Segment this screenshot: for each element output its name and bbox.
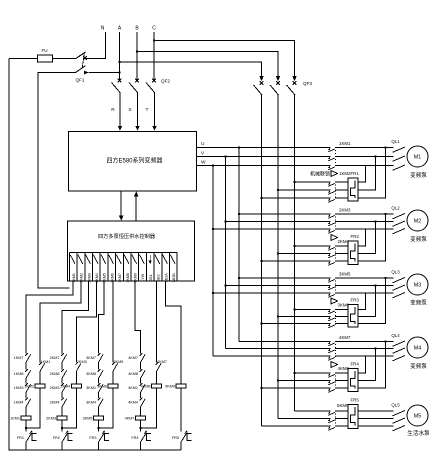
branch group2 right wire (62, 350, 76, 428)
branch group5 wire bottom (180, 388, 182, 432)
motor M5 (407, 405, 428, 426)
terminal divider 3 (84, 253, 86, 282)
motor M3 (407, 274, 428, 295)
svg-text:5KM9: 5KM9 (134, 273, 138, 282)
svg-text:变频泵: 变频泵 (410, 299, 427, 307)
motor lead M2 2 (393, 221, 406, 226)
contactor 1KM2 pole 2 on mains line (278, 189, 348, 191)
svg-text:2KM4: 2KM4 (50, 401, 60, 405)
thermal contact FR4 (141, 431, 147, 442)
svg-text:1KM3: 1KM3 (14, 386, 24, 390)
breaker QF1 pole 2 blade (76, 66, 86, 73)
contact 2KM3 aux (76, 362, 81, 371)
contactor 1KM1 pole 2 on phase line (196, 156, 393, 158)
terminal divider 7 (115, 253, 117, 282)
motor M1 (407, 146, 428, 167)
junction riser M4 3 (384, 340, 387, 343)
coil 4KM7 (136, 416, 146, 420)
branch group4 right wire (141, 350, 157, 428)
wire terminal 5 to branch (99, 281, 105, 350)
motor lead M5 3 (393, 426, 406, 431)
svg-text:M4: M4 (414, 346, 422, 352)
junction riser M1 2 (374, 155, 377, 158)
contact 4KM7 aux (156, 362, 161, 371)
contact 3KM8 (98, 369, 103, 378)
terminal switch 14 (170, 255, 175, 264)
controller box (68, 221, 195, 281)
junction group1 (25, 427, 28, 430)
wire C dropper (153, 32, 155, 80)
svg-text:N: N (101, 26, 105, 32)
svg-text:2KM4: 2KM4 (95, 273, 99, 282)
terminal divider 1 (68, 253, 70, 282)
breaker QF3 pole 1 arrow (259, 76, 264, 81)
motor lead M3 2 (393, 285, 406, 290)
breaker QF1 pole 2 terminal arrow (84, 71, 89, 75)
motor lead M2 3 (393, 229, 406, 234)
motor lead M4 3 (393, 356, 406, 361)
branch group3 left wire (98, 350, 100, 450)
terminal divider 11 (145, 253, 147, 282)
wire B to QF3 (137, 52, 278, 77)
coil 3KM6 (108, 384, 118, 388)
svg-text:QF2: QF2 (161, 79, 170, 84)
contact 4KM4 (140, 398, 145, 407)
contact 1KM8 (25, 369, 30, 378)
svg-text:4KM8: 4KM8 (141, 384, 151, 388)
svg-text:4KM7: 4KM7 (125, 416, 135, 420)
svg-text:3KM6: 3KM6 (97, 384, 107, 388)
contactor 2KM4 linkage (335, 249, 337, 263)
svg-text:R: R (111, 107, 115, 113)
contactor 1KM1 pole 1 on phase line (196, 147, 393, 149)
contactor 3KM5 pole 2 on phase line (226, 285, 394, 287)
breaker QF2 pole 1 blade (112, 83, 121, 93)
interlock triangle M2 (331, 235, 338, 241)
interlock triangle M1 (331, 171, 338, 177)
svg-text:变频泵: 变频泵 (410, 362, 427, 370)
breaker QF3 pole 2 arrow (276, 76, 281, 81)
thermal relay FR2 (348, 241, 358, 265)
svg-text:SB3A: SB3A (164, 273, 168, 283)
junction riser M2 3 (384, 213, 387, 216)
svg-text:FU: FU (41, 48, 47, 53)
svg-text:1KM1: 1KM1 (339, 141, 351, 146)
coil 4KM8 (152, 384, 162, 388)
svg-text:1KM8: 1KM8 (14, 372, 24, 376)
wire terminal 1 to branch (26, 281, 73, 350)
svg-text:FR5: FR5 (351, 398, 360, 403)
terminal divider 5 (99, 253, 101, 282)
wire FR2 output 1 riser (358, 229, 366, 246)
junction group2 (61, 427, 64, 430)
terminal switch 13 (163, 255, 168, 264)
contactor 2KM4 pole 3 on mains line (262, 260, 349, 262)
junction M2 lower phase 2 tap (277, 252, 280, 255)
svg-text:FR3: FR3 (351, 298, 360, 303)
svg-text:QL5: QL5 (391, 403, 400, 408)
svg-text:M3: M3 (414, 283, 422, 289)
terminal divider 4 (91, 253, 93, 282)
thermal contact FR3 (99, 431, 105, 442)
contact 2KM3 (61, 383, 66, 392)
contactor 4KM7 pole 1 on phase line (239, 341, 394, 343)
svg-text:U: U (201, 141, 205, 147)
svg-text:生活水泵: 生活水泵 (407, 429, 429, 437)
breaker QF3 pole 1 terminal (260, 81, 264, 85)
svg-text:1KM4: 1KM4 (14, 401, 24, 405)
svg-text:4KM8: 4KM8 (128, 372, 138, 376)
junction M3 upper phase 1 tap (238, 277, 241, 280)
svg-text:FR5: FR5 (172, 436, 179, 440)
svg-text:2KM3: 2KM3 (50, 386, 60, 390)
svg-text:2KM3: 2KM3 (87, 273, 91, 282)
terminal strip top line (69, 252, 177, 254)
svg-text:QL4: QL4 (391, 333, 400, 338)
junction A-QF1 (118, 71, 121, 74)
motor M4 (407, 337, 428, 358)
contactor 4KM8 pole 1 on mains line (295, 372, 349, 374)
wire FR1 output 1 riser (358, 166, 366, 183)
wire fuse to QF1 (53, 58, 76, 60)
junction M3 upper phase 3 tap (212, 292, 215, 295)
svg-text:W: W (201, 160, 206, 166)
svg-text:FR2: FR2 (351, 234, 360, 239)
junction B branch (136, 50, 139, 53)
svg-text:S: S (128, 107, 131, 113)
svg-text:QF3: QF3 (303, 81, 312, 86)
thermal relay FR4 (348, 369, 358, 392)
arrow into controller (119, 216, 124, 221)
svg-text:3KM5: 3KM5 (114, 360, 124, 364)
svg-text:3KM5: 3KM5 (103, 273, 107, 282)
thermal relay FR5 (348, 405, 358, 429)
svg-text:2KM3: 2KM3 (339, 208, 351, 213)
breaker QF1 linkage (82, 54, 84, 68)
wire B dropper (136, 32, 138, 80)
svg-text:2KM4: 2KM4 (60, 384, 70, 388)
wire terminal 6 to branch (112, 281, 114, 350)
junction riser M3 3 (384, 277, 387, 280)
breaker QF2 pole 2 blade (129, 83, 138, 93)
motor lead M5 2 (393, 418, 406, 423)
motor lead M1 3 (393, 165, 406, 170)
junction M1 lower phase 2 tap (277, 189, 280, 192)
junction M2 upper phase 1 tap (238, 213, 241, 216)
contactor 3KM6 linkage (335, 312, 337, 325)
svg-text:4KM7: 4KM7 (128, 356, 138, 360)
breaker QF1 pole 1 terminal (83, 56, 87, 60)
wire terminal 3 to branch (62, 281, 89, 350)
terminal switch 10 (140, 255, 145, 264)
wire fuse left (9, 58, 38, 60)
svg-text:1KM7: 1KM7 (14, 356, 24, 360)
coil 1KM1 (21, 416, 31, 420)
arrow into inverter (134, 191, 139, 196)
svg-text:1KM2: 1KM2 (339, 171, 351, 176)
branch group1 right wire (26, 350, 40, 428)
svg-text:1KM2: 1KM2 (24, 384, 34, 388)
wire FR4 output 3 riser (358, 342, 386, 389)
contact 2KM8 (61, 369, 66, 378)
junction A branch (118, 61, 121, 64)
wire FR3 output 2 riser (358, 286, 376, 317)
junction M1 lower phase 1 tap (293, 181, 296, 184)
svg-text:1KM2: 1KM2 (80, 273, 84, 282)
contactor 2KM4 pole 2 on mains line (278, 253, 348, 255)
contact 1KM7 (25, 353, 30, 362)
interlock triangle M4 (331, 362, 338, 368)
contactor 3KM6 pole 2 on mains line (278, 316, 348, 318)
coil 5KM9 (176, 384, 186, 388)
coil 2KM4 (71, 384, 81, 388)
svg-text:四方E580系列变频器: 四方E580系列变频器 (106, 157, 162, 165)
contact 4KM8 (140, 369, 145, 378)
wire controller-inverter up (135, 196, 137, 221)
contactor 5KM9 pole 2 on mains line (278, 418, 348, 420)
bus mains A vertical (261, 95, 263, 426)
breaker QF3 pole 2 terminal (276, 81, 280, 85)
svg-text:3KM7: 3KM7 (86, 356, 96, 360)
wire FR5 output 1 (358, 410, 394, 412)
contact 2KM7 (61, 353, 66, 362)
breaker QF2 pole 2 terminal (135, 79, 139, 83)
contactor 4KM7 pole 3 on phase line (213, 355, 394, 357)
svg-text:T: T (146, 107, 149, 113)
junction M2 lower phase 3 tap (260, 260, 263, 263)
breaker QF3 pole 3 arrow (292, 76, 297, 81)
wire terminal 9 to branch (135, 281, 141, 350)
terminal divider 8 (122, 253, 124, 282)
bus U vertical (238, 148, 240, 342)
terminal switch 3 (86, 255, 91, 264)
breaker QF3 pole 3 blade (287, 85, 296, 95)
terminal 11 input arrow (149, 261, 152, 265)
fuse FU (38, 55, 53, 62)
contactor 3KM6 pole 1 on mains line (295, 309, 349, 311)
contactor 1KM2 pole 1 on mains line (295, 181, 349, 183)
svg-text:FR1: FR1 (351, 171, 360, 176)
contactor 1KM2 linkage (335, 185, 337, 200)
wire QF2 pole 2 down (137, 93, 139, 127)
terminal divider 13 (161, 253, 163, 282)
svg-text:四方多泵恒压供水控制器: 四方多泵恒压供水控制器 (98, 232, 156, 240)
svg-text:2KM7: 2KM7 (50, 356, 60, 360)
breaker QF3 pole 2 blade (270, 85, 279, 95)
inverter box (69, 132, 197, 191)
arrow QF2 pole 3 into inverter (152, 126, 157, 131)
contactor 2KM3 pole 3 on phase line (213, 228, 394, 230)
svg-text:3KM4: 3KM4 (86, 401, 96, 405)
contactor 4KM8 pole 3 on mains line (262, 387, 349, 389)
svg-text:1KM1: 1KM1 (72, 273, 76, 282)
contactor 5KM9 linkage (335, 414, 337, 428)
bus mains B vertical (277, 95, 279, 419)
svg-text:QF1: QF1 (76, 78, 85, 83)
contact 1KM3 (25, 383, 30, 392)
svg-text:C: C (152, 26, 156, 32)
motor M2 (407, 210, 428, 231)
contact 1KM1 aux (39, 362, 44, 371)
contactor 2KM4 pole 1 on mains line (295, 245, 349, 247)
arrow QF2 pole 2 into inverter (135, 126, 140, 131)
interlock triangle M3 (331, 298, 338, 304)
contactor 3KM5 pole 3 on phase line (213, 292, 394, 294)
svg-text:4KM7: 4KM7 (339, 335, 351, 340)
motor lead M3 3 (393, 293, 406, 298)
breaker QF2 pole 3 blade (146, 83, 155, 93)
breaker QF3 pole 1 blade (254, 85, 263, 95)
terminal divider 9 (130, 253, 132, 282)
coil 2KM3 (57, 416, 67, 420)
contactor 5KM9 pole 3 on mains line (262, 425, 349, 427)
svg-text:FR4: FR4 (131, 436, 138, 440)
junction M3 lower phase 1 tap (293, 308, 296, 311)
thermal relay FR1 (348, 178, 358, 201)
breaker QF3 pole 3 terminal (293, 81, 297, 85)
svg-text:SB2: SB2 (157, 274, 161, 281)
svg-text:4KM7: 4KM7 (157, 360, 167, 364)
svg-text:3KM6: 3KM6 (110, 273, 114, 282)
svg-text:1KM1: 1KM1 (41, 360, 51, 364)
terminal switch 4 (93, 255, 98, 264)
branch group5 wire top (180, 306, 182, 384)
wire QF2 pole 3 down (154, 93, 156, 127)
terminal divider 15 (176, 253, 178, 282)
wire QF2 pole 1 down (119, 93, 121, 127)
contactor 4KM8 linkage (335, 376, 337, 390)
terminal switch 8 (124, 255, 129, 264)
junction W bus drop (212, 164, 215, 167)
contactor 3KM6 pole 3 on mains line (262, 323, 349, 325)
svg-text:4KM4: 4KM4 (128, 401, 138, 405)
svg-text:2KM3: 2KM3 (46, 416, 56, 420)
svg-text:FR3: FR3 (89, 436, 96, 440)
svg-text:1YW: 1YW (141, 273, 145, 281)
junction M3 upper phase 2 tap (224, 284, 227, 287)
terminal divider 10 (138, 253, 140, 282)
contactor 2KM3 linkage (335, 217, 337, 231)
svg-text:3KM8: 3KM8 (86, 372, 96, 376)
junction riser M3 2 (374, 284, 377, 287)
branch group1 left wire (25, 350, 27, 450)
motor lead M3 1 (393, 278, 406, 283)
svg-text:机械联锁: 机械联锁 (310, 171, 330, 178)
wire inverter-controller down (120, 191, 122, 216)
coil 1KM2 (35, 384, 45, 388)
wire FR5 output 3 (358, 425, 394, 427)
contactor 3KM5 pole 1 on phase line (239, 277, 394, 279)
wire FR4 output 2 riser (358, 349, 376, 381)
svg-text:3KM5: 3KM5 (83, 416, 93, 420)
wire A to QF3 (120, 62, 262, 77)
svg-text:2KM3: 2KM3 (77, 360, 87, 364)
svg-text:SB1: SB1 (149, 274, 153, 281)
terminal switch 7 (116, 255, 121, 264)
contact 3KM7 (98, 353, 103, 362)
motor lead M5 1 (393, 411, 406, 416)
thermal contact FR5 (181, 431, 187, 442)
junction riser M2 2 (374, 220, 377, 223)
junction M2 upper phase 2 tap (224, 220, 227, 223)
contact 4KM1 (140, 383, 145, 392)
wire A dropper (119, 32, 121, 80)
terminal 11 input wire (149, 255, 151, 261)
wire QF1 pole2 to A (89, 72, 120, 74)
breaker QF2 pole 1 terminal (118, 79, 122, 83)
junction M2 upper phase 3 tap (212, 228, 215, 231)
arrow QF2 pole 1 into inverter (118, 126, 123, 131)
wire FR2 output 3 riser (358, 214, 386, 261)
svg-text:M1: M1 (414, 155, 422, 161)
wire FR2 output 2 riser (358, 222, 376, 254)
breaker QF1 pole 1 blade (76, 52, 86, 59)
wire FR5 output 2 (358, 418, 394, 420)
terminal divider 12 (153, 253, 155, 282)
svg-text:4KM8: 4KM8 (126, 273, 130, 282)
contact 4KM7 (140, 353, 145, 362)
contactor 1KM1 linkage (335, 150, 337, 167)
svg-text:2KM8: 2KM8 (50, 372, 60, 376)
junction group4 (139, 427, 142, 430)
motor lead M1 1 (393, 147, 406, 152)
terminal switch 12 (155, 255, 160, 264)
branch group5 to rail (180, 442, 182, 450)
terminal switch 6 (109, 255, 114, 264)
svg-text:QL1: QL1 (391, 139, 400, 144)
contactor 5KM9 pole 1 on mains line (295, 410, 349, 412)
wire FR3 output 1 riser (358, 293, 366, 310)
terminal switch 9 (132, 255, 137, 264)
breaker QF2 pole 3 terminal (152, 79, 156, 83)
bus mains C vertical (294, 95, 296, 411)
terminal divider 6 (107, 253, 109, 282)
svg-text:3KM5: 3KM5 (339, 272, 351, 277)
junction riser M4 2 (374, 347, 377, 350)
contact 3KM4 (98, 398, 103, 407)
terminal divider 2 (76, 253, 78, 282)
contactor 2KM3 pole 2 on phase line (226, 221, 394, 223)
contactor 4KM8 pole 2 on mains line (278, 380, 348, 382)
junction C branch (153, 39, 156, 42)
svg-text:变频泵: 变频泵 (410, 171, 427, 179)
terminal switch 2 (78, 255, 83, 264)
svg-text:FR1: FR1 (17, 436, 24, 440)
wire FR3 output 3 riser (358, 278, 386, 324)
junction U bus drop (238, 146, 241, 149)
svg-text:5KM9: 5KM9 (337, 403, 349, 408)
wire FR4 output 1 riser (358, 356, 366, 373)
junction M4 lower phase 1 tap (293, 372, 296, 375)
junction M3 lower phase 2 tap (277, 315, 280, 318)
svg-text:3KM1: 3KM1 (86, 386, 96, 390)
thermal contact FR1 (26, 431, 32, 442)
bus V vertical (225, 157, 227, 349)
wire terminal 12 to branch (156, 281, 158, 350)
svg-text:FR4: FR4 (351, 362, 360, 367)
svg-text:5KM9: 5KM9 (165, 384, 175, 388)
terminal divider 14 (168, 253, 170, 282)
junction M4 lower phase 3 tap (260, 387, 263, 390)
svg-text:变频泵: 变频泵 (410, 235, 427, 243)
bus W vertical (212, 166, 214, 357)
motor lead M4 1 (393, 341, 406, 346)
contactor 4KM7 pole 2 on phase line (226, 348, 394, 350)
contact 3KM5 aux (112, 362, 117, 371)
branch group2 left wire (61, 350, 63, 450)
wire QF1 pole2 left (38, 73, 76, 289)
contact 1KM4 (25, 398, 30, 407)
